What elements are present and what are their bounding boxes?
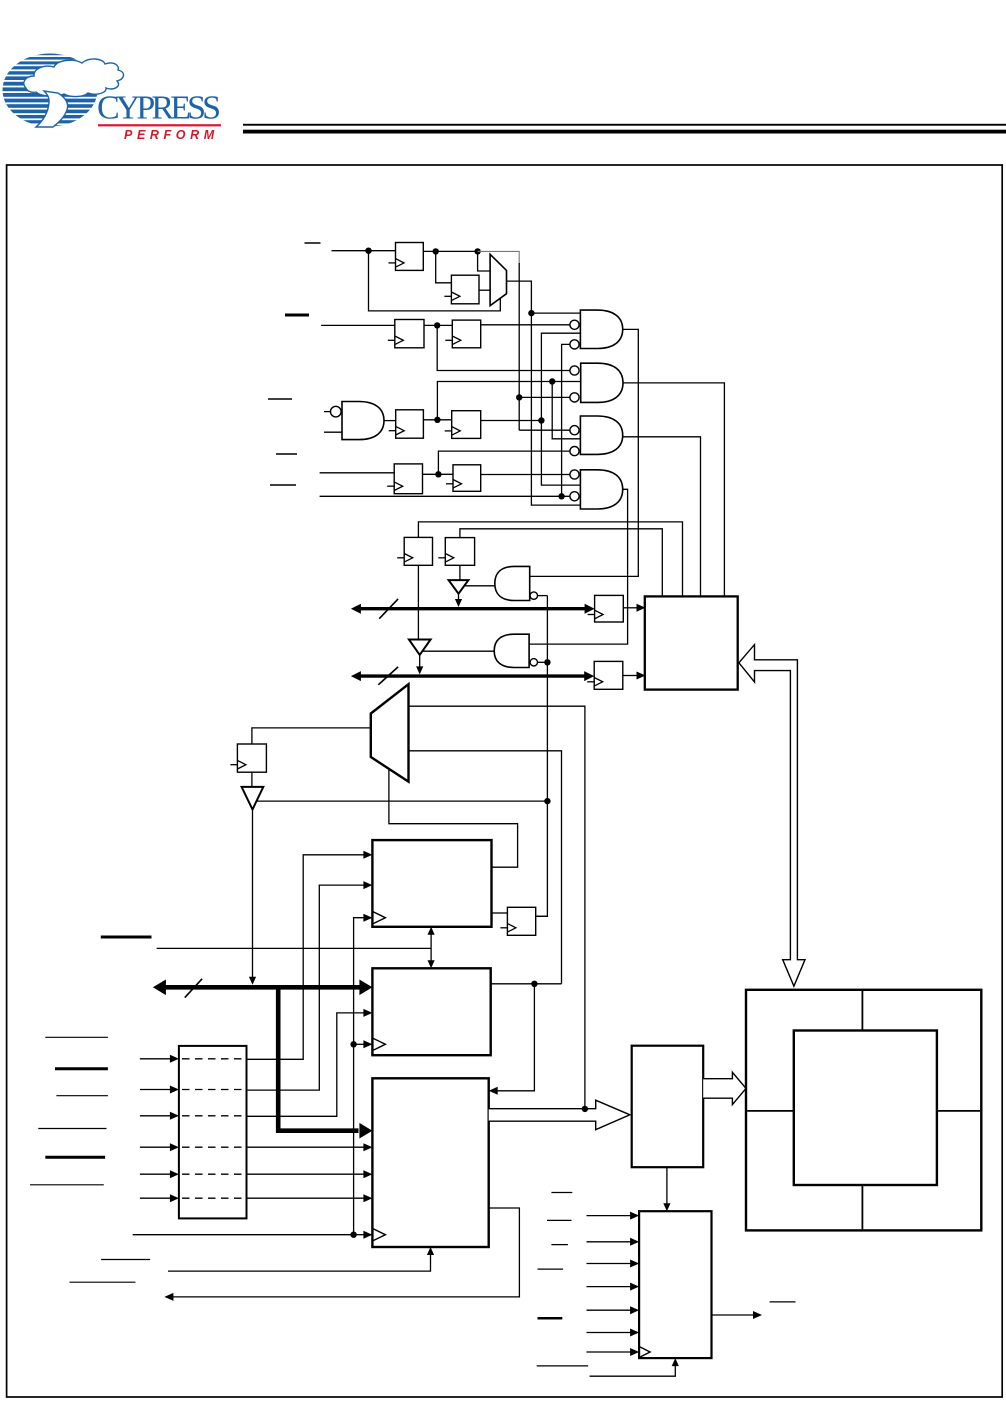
- flip-flop FF13: [588, 595, 624, 622]
- wire reg R3 bottom input: [168, 1255, 431, 1272]
- label tick IO output: [770, 1301, 796, 1303]
- arrow Z1 into bus A: [455, 599, 462, 607]
- wire IO bottom input: [590, 1366, 676, 1377]
- buffer Z2 enable wire: [422, 650, 495, 652]
- junction FF6 out at trunk x541: [538, 417, 544, 423]
- bus C width slash: [185, 979, 202, 998]
- arrow IO clock: [630, 1348, 639, 1356]
- wire trunk to gate bubbles (grey segment): [478, 251, 520, 264]
- gate U4 bubble input b: [570, 447, 579, 456]
- junction FF1 out a: [433, 248, 439, 254]
- NAND G5 input stub b: [324, 431, 342, 433]
- AND gate U5: [580, 470, 622, 509]
- wire riser input 2 to reg R1: [247, 885, 365, 1090]
- wire IO output: [712, 1314, 754, 1316]
- buffer Z3 enable wire: [256, 800, 548, 802]
- bus C bold line: [164, 985, 360, 990]
- wire FF3 out: [424, 324, 452, 326]
- bus C branch to reg R3 (bold elbow): [278, 989, 358, 1131]
- wire D1 output 6 to reg R3: [247, 1197, 365, 1199]
- junction row1 input: [365, 248, 371, 254]
- wire reg R1 to FF12: [492, 912, 508, 914]
- wire gate U2 output: [530, 329, 639, 576]
- wire FF4 out to gate U2 bubble: [481, 324, 570, 326]
- wire mux U6 input 1: [409, 706, 585, 1109]
- bus A right arrowhead: [585, 604, 595, 614]
- logo red underline: [98, 124, 221, 126]
- gate U3 bubble input b: [570, 393, 579, 402]
- label tick mid 2 (bold): [55, 1067, 108, 1070]
- AND gate U4: [580, 416, 622, 454]
- junction trunk x547 at Z3 wire: [544, 798, 550, 804]
- wire trunk x561 gate U2 bubble to row4: [562, 344, 570, 496]
- wire clock trunk: [133, 918, 364, 1235]
- flip-flop FF14: [587, 661, 623, 689]
- arrow into reg R1 clock: [363, 914, 372, 922]
- junction clock at reg R2: [350, 1041, 356, 1047]
- bus B bold line: [360, 674, 586, 677]
- wire reg R3 out down-left: [173, 1208, 519, 1297]
- pin label tick row4a: [276, 453, 297, 455]
- label tick mid 6: [30, 1184, 104, 1186]
- hollow arrow arbiter to memory: [703, 1072, 746, 1104]
- arrow into reg R2 clock: [363, 1040, 372, 1048]
- label tick mid 5 (bold): [45, 1156, 105, 1159]
- arrow FF13 into B1: [637, 604, 646, 612]
- NAND G6 output bubble: [530, 592, 537, 599]
- memory tie bottom: [861, 1185, 863, 1229]
- arrow into IO bottom: [672, 1358, 679, 1366]
- register R3: [372, 1078, 488, 1247]
- label tick io 6: [537, 1365, 589, 1367]
- wire FF5 riser to gate U3 mid: [437, 382, 580, 420]
- arrow bus C into reg R3: [359, 1123, 372, 1139]
- wire FF8 out to gate U5 bubble: [481, 474, 570, 476]
- gate U3 bubble input a: [570, 366, 579, 375]
- gate U4 bubble input a: [570, 426, 579, 435]
- arrow Z3 into bus C: [249, 977, 256, 985]
- wire trunk x547: [536, 596, 548, 917]
- flip-flop FF11: [230, 744, 266, 772]
- wire IO input 1: [587, 1215, 631, 1217]
- label tick io 5 (bold): [538, 1317, 563, 1320]
- label tick bottom-left 1: [101, 1259, 150, 1261]
- wire input arrow 2 into D1: [140, 1089, 171, 1091]
- junction riser at trunk x552: [549, 378, 555, 384]
- wire IO input 3: [587, 1263, 631, 1265]
- gate U5 bubble input a: [570, 470, 579, 479]
- wire control line to register pair: [157, 947, 432, 949]
- wire FF7 out: [423, 473, 454, 475]
- wire mux U1 output: [507, 281, 581, 505]
- gate U5 bubble input b: [570, 492, 579, 501]
- wire feedback row1: [369, 251, 501, 311]
- wire gate U3 output: [623, 383, 724, 597]
- arrow Z2 into bus B: [416, 666, 423, 674]
- wire row2 input to FF3: [321, 324, 395, 326]
- register R2: [372, 968, 490, 1055]
- tri-state buffer Z2: [409, 640, 431, 655]
- gate U2 bubble input b: [570, 340, 579, 349]
- bus A left arrowhead: [351, 604, 361, 614]
- Cypress logo tree silhouette: [24, 59, 124, 97]
- label tick bottom-left 2: [70, 1281, 136, 1283]
- memory array block M1: [746, 990, 981, 1231]
- wire D1 output 5 to reg R3: [247, 1173, 365, 1175]
- wire FF10 out to buffer Z1: [459, 565, 461, 580]
- pin label tick row3: [268, 398, 292, 400]
- wire arbiter to IO block: [666, 1167, 668, 1204]
- wire FF2 out to mux U1: [479, 289, 490, 291]
- NAND G5 input stub a: [324, 411, 330, 413]
- wire G5 out to FF5: [384, 420, 396, 422]
- wire input arrow 5 into D1: [140, 1173, 171, 1175]
- arrow into reg R1 input 2: [363, 881, 372, 889]
- wire IO input 6: [587, 1332, 631, 1334]
- wire gate U5 output: [529, 489, 628, 644]
- header thick rule: [243, 130, 1006, 134]
- wire Z3 to bus C: [252, 810, 254, 979]
- NAND G7 output bubble: [530, 659, 537, 666]
- flip-flop FF12: [500, 907, 535, 935]
- junction clock at reg R3: [350, 1232, 356, 1238]
- flip-flop FF1: [389, 243, 424, 271]
- arrow into reg R3 right side: [489, 1087, 498, 1095]
- wire input arrow 4 into D1: [140, 1146, 171, 1148]
- wire FF11 out to buffer Z3: [251, 772, 253, 787]
- wire FF1 out: [423, 250, 480, 252]
- flip-flop FF2: [444, 275, 479, 304]
- wire Z1 to bus A: [458, 594, 460, 600]
- block B1 interrupt logic: [645, 596, 738, 689]
- wire trunk x541 up to gate U2: [541, 333, 580, 485]
- hollow arrow B1 to memory array: [739, 645, 805, 987]
- wire riser input 1 to reg R1: [247, 855, 365, 1060]
- junction trunk x547 at G7: [544, 659, 550, 665]
- arrow IO output: [753, 1311, 762, 1319]
- memory tie right: [937, 1110, 980, 1112]
- dashed row 1: [182, 1058, 244, 1060]
- arrow into reg R1 input 1: [363, 851, 372, 859]
- svg-text:CYPRESS: CYPRESS: [97, 90, 221, 127]
- dashed row 2: [182, 1089, 244, 1091]
- wire FF10 riser to B1: [460, 529, 662, 597]
- junction mux output at gate U2 input: [528, 310, 534, 316]
- wire clock branch reg R2: [354, 1043, 364, 1045]
- dashed row 4: [182, 1146, 244, 1148]
- memory tie left: [747, 1110, 794, 1112]
- svg-text:PERFORM: PERFORM: [124, 128, 219, 142]
- junction FF5 out: [434, 417, 440, 423]
- wire gate U4 upper bubble feed: [518, 429, 520, 431]
- label tick mid 4: [38, 1128, 106, 1130]
- wire mux U1 upper input: [478, 251, 491, 271]
- bus A width slash: [379, 599, 398, 619]
- label tick io 3: [551, 1244, 568, 1246]
- junction trunk x519 at gate U3 bubble: [516, 394, 522, 400]
- wire FF13 out to B1: [623, 607, 637, 609]
- double arrow reg R1 to reg R2: [430, 933, 432, 963]
- wire FF9 out to buffer Z2: [417, 565, 419, 639]
- arrow into reg R2 input: [363, 1009, 372, 1017]
- junction row4 lower at trunk x561: [558, 493, 564, 499]
- mux U1: [490, 254, 506, 305]
- wire mux U6 output: [252, 728, 371, 744]
- bus B width slash: [378, 667, 398, 685]
- wire FF12 right input: [536, 915, 548, 917]
- wire FF2 input drop: [436, 251, 452, 282]
- junction bypass at hollow arrow: [582, 1106, 588, 1112]
- pin label tick row4b: [270, 484, 296, 486]
- wire row1 input to FF1: [332, 250, 396, 252]
- wire FF5 out: [423, 419, 451, 421]
- flip-flop FF7: [387, 464, 422, 494]
- dashed row 3: [182, 1115, 244, 1117]
- flip-flop FF9: [397, 537, 432, 565]
- label tick mid 1: [45, 1036, 108, 1038]
- wire mux U6 input 2: [409, 751, 562, 984]
- bus B left arrowhead: [351, 671, 361, 681]
- wire input arrow 1 into D1: [140, 1058, 171, 1060]
- arrow arbiter into IO block: [663, 1203, 670, 1211]
- junction FF7 out: [435, 471, 441, 477]
- wire trunk x552 to gate U4 mid: [552, 382, 580, 439]
- flip-flop FF10: [438, 538, 474, 566]
- IO control block B2: [639, 1211, 711, 1358]
- hollow arrow reg R3 to arbiter: [489, 1100, 630, 1130]
- pin label tick control (bold): [101, 936, 152, 939]
- flip-flop FF4: [445, 320, 480, 348]
- junction reg R2 output: [531, 981, 537, 987]
- wire IO input 4: [587, 1286, 631, 1288]
- pin label tick row2 (bold): [285, 314, 309, 317]
- buffer Z1 enable wire: [464, 585, 495, 587]
- wire mux U6 select: [389, 769, 518, 867]
- wire row4 input to FF7: [320, 472, 395, 474]
- flip-flop FF3: [388, 320, 424, 348]
- wire IO clock input: [587, 1351, 631, 1353]
- tri-state buffer Z1: [449, 580, 469, 594]
- wire IO input 5: [587, 1309, 631, 1311]
- arrow into reg R3 bottom: [427, 1247, 434, 1255]
- flip-flop FF5: [389, 410, 424, 438]
- wire riser input to reg R2: [247, 1013, 365, 1116]
- gate U2 bubble input a: [570, 320, 579, 329]
- flip-flop FF6: [445, 411, 481, 439]
- wire G6 bubble to trunk x547: [538, 595, 548, 597]
- wire input arrow 6 into D1: [140, 1197, 171, 1199]
- register R1: [372, 840, 491, 927]
- dashed row 5: [182, 1173, 244, 1175]
- mux U6: [371, 684, 409, 781]
- wire gate U3 lower bubble feed: [519, 396, 570, 398]
- junction FF1 out b: [474, 248, 480, 254]
- NAND G5 input bubble: [331, 406, 342, 417]
- wire row4 lower input to gate U5 bubble: [320, 495, 570, 497]
- AND gate G5: [342, 402, 384, 440]
- AND gate U2: [580, 310, 622, 348]
- label tick io 4: [538, 1268, 564, 1270]
- NAND gate G6 (left-facing): [495, 566, 530, 600]
- flip-flop FF8: [446, 465, 481, 492]
- junction FF3 out: [434, 322, 440, 328]
- memory tie top: [861, 991, 863, 1031]
- bus C left arrowhead: [153, 980, 166, 996]
- wire IO input 2: [587, 1241, 631, 1243]
- header thin rule: [243, 124, 1006, 126]
- AND gate U3: [581, 363, 623, 402]
- wire clock branch reg R3: [354, 1234, 364, 1236]
- wire input arrow 3 into D1: [140, 1115, 171, 1117]
- tri-state buffer Z3: [242, 787, 264, 810]
- wire FF6 out: [481, 420, 542, 422]
- NAND gate G7 (left-facing): [494, 634, 529, 667]
- wire reg R2 output: [491, 983, 562, 985]
- label tick io 1: [551, 1192, 572, 1194]
- wire FF9 riser to B1: [418, 522, 682, 597]
- wire reg R2 out down to reg R3: [497, 984, 534, 1091]
- wire trunk x519: [518, 263, 520, 430]
- wire FF3 branch to gate U3 bubble: [437, 325, 570, 370]
- label tick io 2: [547, 1219, 572, 1221]
- dashed row 6: [182, 1197, 244, 1199]
- wire FF7 riser to gate U4 bubble: [438, 451, 570, 474]
- arrow FF14 into B1: [637, 672, 646, 680]
- wire gate U2 input 1: [531, 312, 580, 314]
- memory inner core: [794, 1031, 937, 1186]
- bus A bold line: [360, 607, 587, 610]
- wire G7 bubble to trunk: [538, 661, 548, 663]
- pin label tick row1: [305, 242, 321, 244]
- arrow left end return line: [164, 1293, 173, 1301]
- wire gate U4 output: [623, 437, 701, 597]
- wire D1 output 4 to reg R3: [247, 1146, 365, 1148]
- wire FF14 out to B1: [623, 675, 638, 677]
- label tick mid 3: [56, 1095, 108, 1097]
- bus B right arrowhead: [584, 671, 594, 681]
- input block D1 (dashed rows): [179, 1046, 247, 1219]
- arrow into reg R3 clock: [363, 1231, 372, 1239]
- arbiter block A1: [632, 1046, 704, 1168]
- wire Z2 to bus B: [419, 655, 421, 667]
- bus C right arrowhead: [359, 980, 372, 996]
